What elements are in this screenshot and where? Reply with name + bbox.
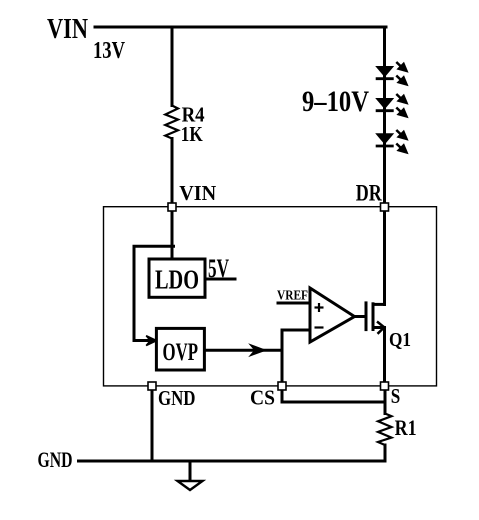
svg-text:R1: R1 [395,415,417,440]
svg-text:VIN: VIN [179,181,216,205]
svg-text:CS: CS [250,385,275,409]
svg-text:GND: GND [158,386,196,410]
svg-text:OVP: OVP [163,339,199,366]
svg-text:5V: 5V [208,254,229,283]
svg-text:VIN: VIN [47,14,88,45]
svg-text:1K: 1K [181,122,204,146]
svg-text:DR: DR [356,180,382,205]
svg-text:9–10V: 9–10V [302,85,369,118]
svg-text:LDO: LDO [155,265,199,295]
svg-text:GND: GND [38,447,73,472]
svg-text:S: S [391,384,401,408]
svg-text:13V: 13V [93,38,126,64]
svg-text:VREF: VREF [277,289,308,304]
svg-text:Q1: Q1 [389,329,411,351]
